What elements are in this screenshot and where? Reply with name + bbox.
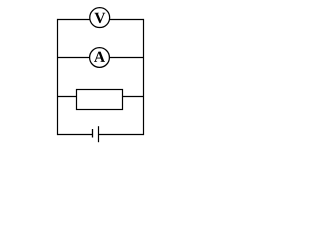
wire bottom-left horizontal segment — [58, 134, 93, 136]
resistor R1 — [77, 90, 123, 110]
ammeter A1 — [90, 48, 110, 68]
wire row3 left horizontal segment — [58, 96, 77, 98]
wire top-right horizontal segment — [109, 19, 143, 21]
battery B1 long plate (positive terminal) — [98, 126, 100, 142]
battery B1 short plate (negative terminal) — [92, 129, 94, 138]
wire bottom-right horizontal segment — [99, 134, 144, 136]
wire row3 right horizontal segment — [123, 96, 144, 98]
voltmeter V1 — [90, 8, 110, 28]
wire row2 left horizontal segment — [58, 57, 90, 59]
wire row2 right horizontal segment — [109, 57, 143, 59]
wire left rail vertical segment — [57, 20, 59, 135]
wire right rail vertical segment — [143, 20, 145, 135]
wire top-left horizontal segment — [58, 19, 91, 21]
